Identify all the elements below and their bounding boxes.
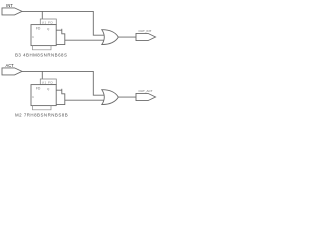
svg-text:ACT: ACT <box>6 63 15 68</box>
svg-text:B3 4BHM8SNRNB68S: B3 4BHM8SNRNB68S <box>15 53 67 58</box>
svg-text:U1 FD: U1 FD <box>42 21 54 25</box>
svg-text:INT: INT <box>6 3 13 8</box>
svg-text:OUT_INT: OUT_INT <box>139 29 152 33</box>
svg-text:M2 7RH8BSNRNBS8B: M2 7RH8BSNRNBS8B <box>15 113 68 118</box>
svg-text:OUT_ACT: OUT_ACT <box>139 89 153 93</box>
svg-text:FD: FD <box>36 27 41 31</box>
svg-text:U1 FD: U1 FD <box>42 81 54 85</box>
svg-text:FD: FD <box>36 87 41 91</box>
